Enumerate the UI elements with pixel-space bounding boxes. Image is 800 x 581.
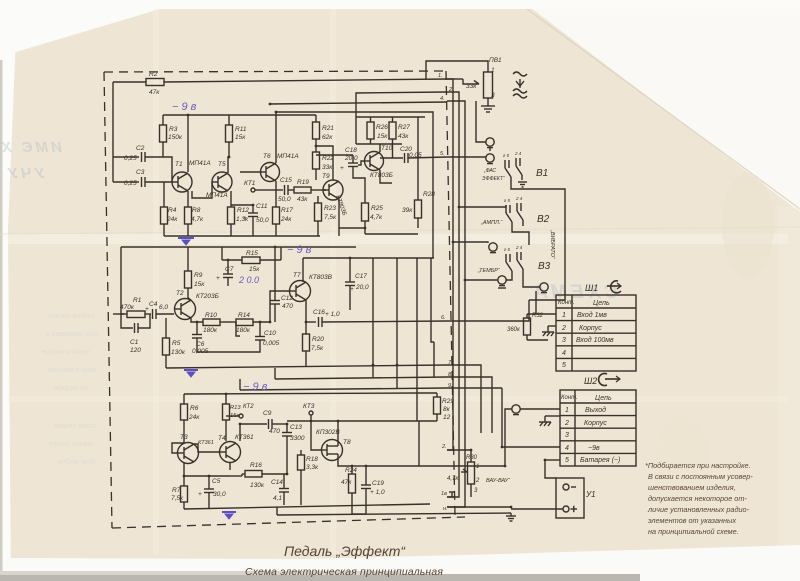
- transistor T9: [323, 180, 343, 200]
- svg-text:4,7к: 4,7к: [370, 214, 383, 221]
- long return wire bottom: [277, 513, 511, 515]
- svg-text:ПВ1: ПВ1: [489, 57, 502, 64]
- svg-text:2 4: 2 4: [515, 245, 523, 250]
- resistor R9: [185, 247, 192, 298]
- bottom rail stage2: [166, 365, 447, 368]
- capacitor C7: [223, 260, 233, 286]
- ground rail stage1: [164, 235, 320, 237]
- transistor T4: [219, 442, 241, 463]
- jack contact J3: [489, 243, 497, 253]
- label R28: [402, 191, 435, 214]
- resistor R29: [434, 393, 441, 421]
- svg-text:0,25: 0,25: [124, 180, 137, 187]
- label U1: [585, 490, 596, 499]
- corpus symbol Sh1-2: [542, 326, 554, 336]
- label R29: [442, 398, 454, 421]
- svg-text:+: +: [340, 165, 344, 172]
- wire T1 emitter down: [187, 191, 189, 207]
- svg-text:+: +: [216, 275, 220, 282]
- wire T3 collector link to T4 base: [194, 444, 219, 452]
- capacitor C3: [142, 177, 173, 187]
- svg-text:С15: С15: [280, 177, 292, 184]
- svg-text:г 5: г 5: [504, 247, 510, 252]
- label T10: [370, 145, 393, 179]
- svg-text:R4: R4: [168, 207, 177, 214]
- svg-text:С18: С18: [345, 147, 357, 154]
- resistor R2: [113, 79, 447, 86]
- capacitor C2: [142, 152, 164, 162]
- svg-text:47к: 47к: [341, 479, 352, 486]
- capacitor C11: [231, 205, 258, 236]
- svg-text:+ 1,0: + 1,0: [370, 489, 385, 496]
- wire jack box left: [476, 101, 486, 142]
- label R13: [230, 405, 241, 419]
- label C13: [290, 424, 305, 442]
- svg-text:Т10: Т10: [381, 145, 393, 152]
- crease bands: [153, 9, 159, 554]
- wire T9 base: [323, 189, 326, 191]
- svg-text:C4: C4: [149, 301, 158, 308]
- svg-text:33к: 33к: [322, 164, 333, 171]
- label C3: [124, 169, 145, 187]
- svg-text:4.: 4.: [440, 96, 445, 102]
- Sh1 plug arrow icon: [607, 281, 621, 293]
- svg-text:С7: С7: [225, 266, 234, 273]
- svg-text:С14: С14: [271, 479, 283, 486]
- svg-text:360к: 360к: [507, 327, 521, 333]
- svg-text:180к: 180к: [236, 327, 251, 334]
- svg-text:50,0: 50,0: [256, 217, 269, 224]
- svg-text:120: 120: [130, 347, 141, 354]
- svg-text:„ВИБРАТО“: „ВИБРАТО“: [549, 229, 555, 260]
- svg-text:5.: 5.: [440, 151, 445, 157]
- label C14: [271, 479, 283, 502]
- svg-text:8к: 8к: [443, 406, 451, 413]
- resistor R8: [185, 207, 192, 236]
- capacitor C1: [121, 314, 150, 333]
- wire T7 base link: [270, 291, 289, 322]
- svg-text:4: 4: [565, 445, 569, 452]
- svg-text:R15: R15: [246, 250, 258, 257]
- svg-text:С17: С17: [355, 273, 367, 280]
- svg-text:R23: R23: [324, 205, 336, 212]
- wire T10 collector to C20: [379, 144, 381, 152]
- svg-text:Корпус: Корпус: [584, 420, 607, 427]
- resistor R23: [315, 196, 322, 236]
- svg-text:180к: 180к: [203, 327, 218, 334]
- wire R2 left drop: [112, 82, 114, 182]
- wire B3 bottom links: [506, 277, 512, 280]
- svg-text:5: 5: [565, 457, 569, 464]
- wire T9 emitter down: [339, 199, 365, 228]
- svg-text:R12: R12: [237, 207, 249, 214]
- horizontal wire 9: [240, 388, 447, 390]
- label B2: [480, 196, 550, 226]
- label R26: [376, 124, 388, 140]
- junction dots right: [452, 206, 547, 509]
- label Sh2: [584, 376, 597, 386]
- wire jack J4 feed from left: [465, 279, 498, 281]
- ground at B1: [518, 182, 527, 187]
- svg-text:24к: 24к: [188, 414, 200, 421]
- wire B2 out: [512, 228, 529, 245]
- label C4: [145, 301, 168, 313]
- svg-text:Ш2: Ш2: [584, 376, 597, 386]
- label R19: [297, 179, 309, 203]
- svg-text:С19: С19: [372, 480, 384, 487]
- svg-text:R14: R14: [238, 312, 250, 319]
- label T5: [206, 161, 228, 199]
- svg-text:*Подбирается при настройке.: *Подбирается при настройке.: [645, 461, 751, 470]
- svg-text:R20: R20: [312, 336, 324, 343]
- svg-text:0,05: 0,05: [409, 152, 422, 159]
- svg-text:4,7к: 4,7к: [447, 476, 459, 482]
- label R22: [322, 155, 334, 171]
- svg-text:Т6: Т6: [263, 153, 271, 160]
- capacitor C5: [204, 476, 214, 508]
- label KT3: [303, 403, 315, 410]
- jack contact J6 output: [512, 405, 520, 415]
- svg-text:Батарея (−): Батарея (−): [580, 457, 620, 464]
- label R9: [194, 272, 205, 288]
- svg-text:С9: С9: [263, 410, 272, 417]
- svg-text:15к: 15к: [377, 133, 388, 140]
- label KT1: [244, 180, 256, 187]
- svg-text:R30: R30: [466, 455, 478, 461]
- svg-text:130к: 130к: [171, 349, 186, 356]
- wire R25 R28 bottoms to rail2: [365, 233, 418, 235]
- svg-text:1.: 1.: [438, 73, 443, 79]
- resistor R20: [303, 322, 310, 366]
- junction dots stage3: [183, 393, 368, 478]
- label R15: [246, 250, 260, 273]
- svg-text:R17: R17: [281, 207, 293, 214]
- resistor R1: [113, 311, 145, 318]
- label T2: [176, 290, 219, 300]
- svg-text:7,5к: 7,5к: [311, 345, 324, 352]
- svg-text:„АМПЛ.“: „АМПЛ.“: [480, 220, 503, 226]
- svg-text:R7: R7: [172, 487, 181, 494]
- svg-text:C2: C2: [136, 145, 145, 152]
- svg-text:Педаль „Эффект“: Педаль „Эффект“: [284, 543, 406, 559]
- capacitor C6: [192, 335, 202, 349]
- resistor R16: [230, 471, 287, 478]
- vertical link x275: [274, 368, 276, 379]
- label R7: [171, 487, 184, 502]
- svg-text:Т2: Т2: [176, 290, 184, 297]
- capacitor C19: [352, 466, 371, 514]
- wire T2 emitter down: [191, 318, 203, 322]
- svg-text:1: 1: [476, 464, 479, 470]
- capacitor C10: [255, 322, 265, 350]
- label C1: [130, 339, 141, 354]
- wire T2 emitter node to C6: [196, 322, 198, 334]
- svg-text:12: 12: [443, 414, 451, 421]
- wire into B2: [459, 205, 506, 207]
- capacitor C4: [145, 309, 174, 319]
- vertical feed wires right of stage2: [372, 258, 374, 377]
- wire stage1 lower links: [338, 228, 340, 236]
- label R24: [341, 467, 357, 486]
- label R18: [306, 456, 319, 471]
- resistor R11: [226, 115, 233, 157]
- svg-text:3300: 3300: [290, 435, 305, 442]
- label C5: [198, 478, 226, 498]
- wire T8 source down: [338, 462, 352, 466]
- svg-text:Т5: Т5: [218, 161, 226, 168]
- svg-text:шенствованием изделия,: шенствованием изделия,: [648, 483, 736, 492]
- vertical link x240: [239, 379, 241, 390]
- svg-text:R16: R16: [250, 462, 262, 469]
- wire x433 drop from stage1 riser: [432, 157, 434, 258]
- label R27: [398, 124, 410, 140]
- svg-text:R21: R21: [322, 125, 334, 132]
- wire T8 gate link: [311, 421, 322, 450]
- svg-text:+: +: [243, 215, 247, 222]
- label R2: [149, 71, 160, 96]
- svg-text:У1: У1: [585, 490, 596, 499]
- svg-text:Т8: Т8: [343, 439, 351, 446]
- svg-text:КП302В: КП302В: [316, 429, 340, 436]
- svg-text:„ФАС: „ФАС: [483, 168, 496, 174]
- jack contact J5: [540, 283, 548, 293]
- label R20: [311, 336, 324, 352]
- table Sh1 text: [558, 300, 614, 369]
- label C15: [278, 177, 292, 203]
- transistor T6: [261, 163, 280, 182]
- horizontal wire 8: [275, 377, 447, 379]
- label R8: [191, 207, 204, 223]
- collector loop box around R26 R27: [356, 117, 425, 144]
- svg-text:43к: 43к: [297, 196, 308, 203]
- label C17: [350, 273, 369, 293]
- svg-text:−9в: −9в: [588, 445, 600, 452]
- bottom scanner shadow: [0, 574, 640, 581]
- wire KT1 line to C15: [270, 189, 283, 191]
- label T8: [316, 429, 351, 446]
- supply rail stage2: [121, 246, 356, 248]
- wire B1 jack feed: [489, 148, 491, 151]
- blue handwritten ink: [172, 101, 312, 393]
- wire output y322: [306, 321, 316, 323]
- svg-text:7,5к: 7,5к: [324, 214, 337, 221]
- svg-text:н.: н.: [443, 506, 448, 512]
- svg-text:47к: 47к: [149, 89, 160, 96]
- wire T1-T5 base link: [192, 182, 212, 198]
- svg-text:В связи с постоянным усовер-: В связи с постоянным усовер-: [648, 472, 753, 481]
- svg-text:Т1: Т1: [175, 161, 183, 168]
- resistor R6: [181, 394, 188, 443]
- title caption: [245, 543, 443, 578]
- wire 9 to x502 riser: [447, 387, 502, 389]
- svg-text:R3: R3: [169, 126, 178, 133]
- horizontal link rail y258: [303, 257, 434, 259]
- svg-text:R5: R5: [172, 340, 181, 347]
- label B3: [477, 245, 551, 274]
- vertical feed wires to switch column: [447, 79, 453, 450]
- wire -9v feed to Sh2 row4: [502, 446, 560, 448]
- label R6: [188, 405, 200, 421]
- label T7: [293, 272, 333, 281]
- svg-text:− 9 в: − 9 в: [287, 244, 312, 256]
- svg-text:470к: 470к: [120, 304, 135, 311]
- handwritten footnote: [645, 461, 753, 536]
- svg-text:− 9 в: − 9 в: [243, 381, 268, 393]
- svg-text:2.: 2.: [441, 444, 447, 450]
- wire T2 collector riser: [188, 298, 191, 300]
- blue ground mark stage2: [184, 370, 198, 377]
- svg-text:470: 470: [282, 303, 293, 310]
- wire n row: [447, 506, 511, 508]
- wire R29 bottom link: [419, 420, 437, 422]
- label C2: [124, 145, 145, 162]
- vertical text VIBRATO: [549, 229, 555, 260]
- svg-text:R13: R13: [230, 405, 241, 411]
- svg-text:R11: R11: [235, 126, 247, 133]
- wire T7 emitter down to output: [305, 300, 307, 322]
- svg-text:КТ3: КТ3: [303, 403, 315, 410]
- table Sh2 text: [561, 395, 620, 464]
- connector table Sh1: [556, 295, 636, 371]
- resistor R24: [349, 466, 356, 514]
- svg-text:В3: В3: [538, 261, 551, 272]
- label C11: [243, 203, 269, 224]
- label R30: [447, 455, 480, 494]
- wire row5 battery to U1: [545, 459, 560, 461]
- svg-text:ЭФФЕКТ“: ЭФФЕКТ“: [482, 176, 505, 182]
- svg-text:4: 4: [562, 350, 566, 357]
- corpus symbol Sh2-2: [539, 416, 560, 426]
- svg-text:Т9: Т9: [322, 173, 330, 180]
- svg-text:Выход: Выход: [585, 406, 606, 414]
- wire C10 loop to R14 right: [236, 322, 240, 336]
- Sh2 plug arrow icon: [599, 374, 620, 386]
- transistor T3: [177, 443, 199, 464]
- label B1: [482, 151, 548, 182]
- wire 1v row: [447, 496, 455, 498]
- wire T6 base from T5: [240, 171, 261, 173]
- svg-text:С10: С10: [264, 330, 276, 337]
- wire corpus to table row2: [548, 325, 556, 327]
- svg-text:Схема электрическая принципиал: Схема электрическая принципиальная: [245, 567, 443, 578]
- potentiometer PV1: [426, 61, 493, 106]
- svg-text:Т4: Т4: [218, 435, 226, 442]
- svg-text:3: 3: [491, 92, 495, 99]
- wire T3 T4 emitter rail: [184, 475, 230, 477]
- wire node2 to R30: [447, 449, 471, 451]
- capacitor C16: [319, 317, 448, 327]
- svg-text:3: 3: [562, 337, 566, 344]
- label node2 lower: [441, 444, 448, 512]
- svg-text:В1: В1: [536, 168, 548, 179]
- wire U1 plus to ground: [511, 508, 563, 510]
- svg-text:элементов от указанных: элементов от указанных: [648, 516, 736, 525]
- svg-text:1: 1: [562, 312, 566, 319]
- connector table Sh2: [560, 390, 636, 466]
- svg-text:R26: R26: [376, 124, 388, 131]
- svg-text:R27: R27: [398, 124, 410, 131]
- node KT2: [226, 414, 243, 418]
- svg-text:Ш1: Ш1: [585, 283, 598, 293]
- wire T5 collector riser: [228, 157, 229, 173]
- svg-text:Цепь: Цепь: [593, 300, 610, 307]
- label T1: [175, 160, 211, 168]
- resistor R10: [203, 319, 236, 326]
- vertical drop x419: [418, 421, 420, 466]
- label R32: [507, 313, 544, 333]
- svg-text:ВАУ-ВАУ“: ВАУ-ВАУ“: [486, 478, 511, 484]
- label PV1: [466, 57, 502, 99]
- svg-text:C3: C3: [136, 169, 145, 176]
- switch B2: [506, 203, 523, 228]
- label C7: [216, 266, 234, 282]
- svg-text:4,7к: 4,7к: [191, 216, 204, 223]
- wire C18 to T10 base: [358, 161, 365, 165]
- wire source output right: [366, 465, 505, 467]
- svg-text:С16: С16: [313, 309, 325, 316]
- svg-text:С5: С5: [212, 478, 221, 485]
- horizontal wire y342: [433, 342, 435, 377]
- wire node4 feed: [270, 102, 447, 104]
- label R10: [203, 312, 218, 334]
- svg-text:Т7: Т7: [293, 272, 301, 279]
- label R3: [168, 126, 183, 141]
- wire input stub to C3: [113, 181, 139, 183]
- resistor R3: [160, 115, 167, 157]
- svg-text:0,005: 0,005: [263, 340, 280, 347]
- svg-text:2: 2: [564, 420, 569, 427]
- svg-text:Вход 100мв: Вход 100мв: [576, 336, 614, 344]
- svg-text:3: 3: [474, 488, 478, 494]
- label R16: [250, 462, 265, 489]
- ground under PV1: [481, 106, 495, 112]
- svg-text:R32: R32: [532, 313, 544, 319]
- label R14: [236, 312, 251, 334]
- svg-text:5: 5: [562, 362, 566, 369]
- svg-text:В2: В2: [537, 214, 550, 225]
- resistor R32: [524, 314, 549, 340]
- blue ground mark stage1: [178, 238, 194, 245]
- wire T5 emitter down: [230, 191, 232, 207]
- svg-text:20,0: 20,0: [344, 155, 358, 162]
- wire R29 top link: [420, 392, 437, 394]
- svg-text:4,1: 4,1: [273, 495, 282, 502]
- wire T8 drain up: [337, 421, 339, 438]
- transistor T10: [365, 152, 384, 171]
- wire 5 to jack B1-2: [447, 156, 486, 158]
- capacitor C14: [279, 474, 289, 505]
- pin tick 1v: [449, 492, 455, 497]
- svg-text:Конт.: Конт.: [561, 395, 578, 401]
- label C16: [313, 309, 340, 318]
- svg-text:43к: 43к: [398, 133, 409, 140]
- svg-text:R10: R10: [205, 312, 217, 319]
- capacitor C13: [282, 424, 292, 474]
- capacitor C20: [380, 153, 447, 163]
- wire T3 emitter down: [183, 462, 185, 476]
- node KT3: [309, 411, 313, 421]
- svg-text:− 9 в: − 9 в: [172, 101, 197, 113]
- folded corner white (top-right): [524, 0, 800, 212]
- label C18: [340, 147, 358, 172]
- resistor R25: [362, 196, 369, 234]
- svg-text:24к: 24к: [166, 216, 178, 223]
- svg-text:Вход 1мв: Вход 1мв: [577, 311, 607, 319]
- svg-text:2 0.0: 2 0.0: [238, 275, 259, 285]
- transistor T2: [174, 299, 196, 320]
- label R21: [322, 125, 334, 141]
- svg-text:+: +: [350, 286, 354, 293]
